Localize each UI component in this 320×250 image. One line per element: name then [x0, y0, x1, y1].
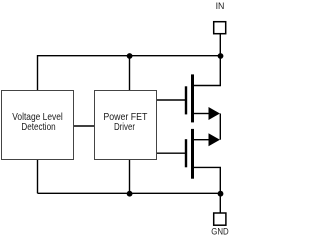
transistor Q2 channel bar [191, 129, 194, 179]
node junction top-left dot [127, 53, 133, 59]
block Voltage Level Detection box [2, 91, 74, 160]
terminal GND square [214, 213, 226, 225]
svg-text:Driver: Driver [114, 122, 135, 133]
wire Q1 source lead [194, 113, 210, 115]
wire box2 top vertical [129, 56, 131, 91]
transistor Q1 gate bar [185, 86, 187, 114]
wire top rail [38, 56, 221, 91]
wire Q1 gate [156, 99, 185, 101]
svg-text:IN: IN [216, 0, 225, 11]
wire bottom rail [38, 192, 221, 194]
wire box2 bottom vertical [129, 159, 131, 193]
wire Q2 drain lead [194, 139, 210, 141]
wire Q2 source to GND terminal [194, 167, 220, 212]
transistor Q2 drain arrow [209, 133, 220, 146]
wire Q2 gate [156, 152, 185, 154]
wire mid rail between arrows [219, 114, 221, 140]
terminal IN square [214, 22, 226, 34]
node junction bottom-left dot [127, 191, 133, 197]
wire between blocks [73, 125, 94, 127]
transistor Q1 channel bar [191, 74, 194, 122]
transistor Q1 source arrow [209, 107, 220, 120]
node junction bottom-right dot [218, 191, 224, 197]
block Power FET Driver box [95, 91, 157, 160]
svg-text:Detection: Detection [21, 122, 55, 133]
transistor Q2 gate bar [185, 139, 187, 167]
wire box1 bottom vertical [37, 159, 39, 193]
svg-text:GND: GND [211, 227, 228, 238]
wire IN terminal to Q1 drain [194, 34, 220, 86]
node junction top-right dot [218, 53, 224, 59]
